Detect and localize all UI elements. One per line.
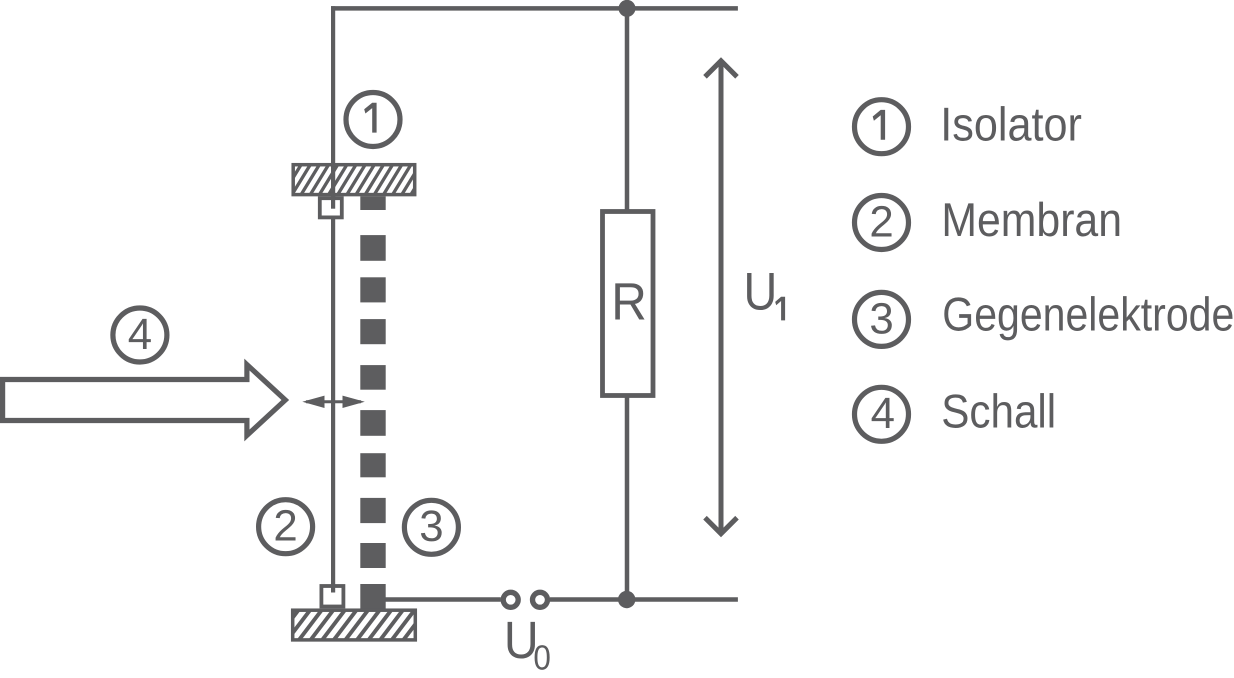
legend row 4: Schall [855,387,909,441]
counter-electrode dashed column (3) [360,235,385,568]
isolator top hatched block (1) [273,163,440,197]
legend row 2: Membran [855,196,909,250]
electrode bottom connector [360,584,385,611]
membrane wire (2) [331,209,335,592]
membrane wire stub into bottom clamp [331,584,335,593]
membrane displacement double arrow [302,396,365,408]
wire: top horizontal [331,6,738,11]
membrane wire stub into top clamp [331,196,335,209]
sound arrow (4) [3,365,286,436]
svg-text:4: 4 [871,389,895,438]
svg-text:3: 3 [869,294,893,343]
isolator bottom hatched block [274,608,450,642]
svg-text:4: 4 [128,310,152,359]
svg-text:R: R [611,272,647,331]
junction node top [619,0,636,17]
wire: resistor bottom to junction [625,396,630,600]
svg-text:2: 2 [273,502,297,551]
bottom clamp (membrane mount) [321,586,343,607]
svg-text:Schall: Schall [941,386,1056,439]
legend row 1: Isolator [855,100,909,154]
wire: left vertical drop [331,6,335,209]
svg-text:U: U [744,263,778,322]
terminal circle left (U0) [503,592,518,607]
wire: junction to resistor top [625,8,630,211]
top clamp (membrane mount) [320,198,342,217]
svg-text:0: 0 [533,639,551,678]
callout 2 (membrane) [259,500,313,554]
wire: bottom left (electrode to U0 terminal) [385,597,501,602]
voltage arrow U1 (double headed vertical) [705,61,737,534]
electrode top connector [360,196,385,210]
svg-text:2: 2 [869,197,893,246]
svg-text:3: 3 [419,502,443,551]
callout 3 (counter electrode) [404,500,458,554]
callout 1 (isolator) [346,93,400,147]
legend row 3: Gegenelektrode [855,292,909,346]
wire: bottom right (U0 terminal to output) [550,597,738,602]
terminal circle right (U0) [533,592,548,607]
svg-text:Membran: Membran [941,194,1122,247]
svg-text:Gegenelektrode: Gegenelektrode [942,288,1234,341]
resistor R [603,212,654,396]
junction node bottom [618,591,635,608]
callout 4 (sound) [113,308,167,362]
svg-text:Isolator: Isolator [940,99,1082,152]
